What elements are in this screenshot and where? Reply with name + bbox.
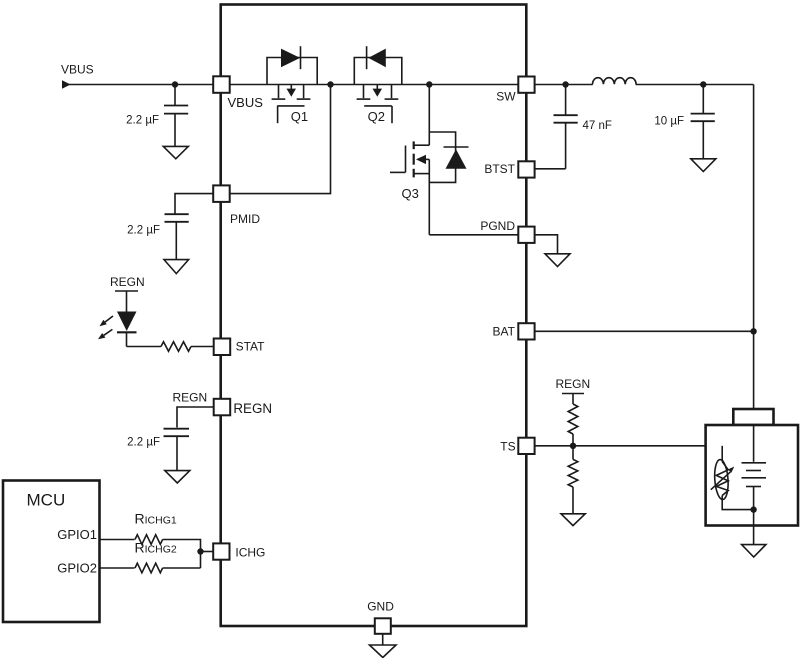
pin GND xyxy=(367,600,394,634)
svg-text:Q2: Q2 xyxy=(368,109,385,124)
wire main top rail xyxy=(230,84,519,86)
svg-text:BTST: BTST xyxy=(484,162,515,176)
ground (REGN cap) xyxy=(165,471,190,483)
wire PMID left xyxy=(175,194,213,214)
ground (C1) xyxy=(163,146,188,158)
capacitor C4 10 uF (output) xyxy=(654,85,714,159)
capacitor C1 2.2 uF (VBUS) xyxy=(126,85,188,147)
transistor Q2 xyxy=(354,46,402,124)
capacitor C3 47 nF (BTST) xyxy=(554,85,612,169)
net label VBUS xyxy=(61,63,94,77)
svg-text:PMID: PMID xyxy=(230,212,260,226)
svg-text:VBUS: VBUS xyxy=(61,63,94,77)
svg-text:2.2 µF: 2.2 µF xyxy=(126,115,159,127)
node battery negative junction xyxy=(750,506,756,512)
wire RT1 to TS node xyxy=(572,434,574,446)
pin VBUS xyxy=(213,76,263,110)
svg-text:REGN: REGN xyxy=(173,391,208,405)
pin TS xyxy=(500,438,534,454)
node VBUS/C1 junction xyxy=(172,81,178,87)
wire inductor to output xyxy=(636,84,754,86)
svg-text:TS: TS xyxy=(500,439,515,453)
MCU box xyxy=(3,481,100,623)
net label REGN (LED) xyxy=(110,275,145,291)
net label REGN (TS divider) xyxy=(556,377,591,394)
resistor RT2 (TS lower) xyxy=(568,459,578,487)
pin BAT xyxy=(493,323,535,339)
node Q1/Q2 junction xyxy=(327,81,333,87)
VBUS input arrow xyxy=(62,80,71,89)
svg-text:REGN: REGN xyxy=(110,275,145,289)
svg-text:MCU: MCU xyxy=(27,491,66,510)
svg-text:RICHG1: RICHG1 xyxy=(135,511,177,527)
net label REGN (pin) xyxy=(173,391,208,405)
net label GPIO1 xyxy=(57,527,97,542)
svg-text:2.2 µF: 2.2 µF xyxy=(127,224,160,236)
battery pack box xyxy=(706,425,798,526)
resistor RICHG2 xyxy=(135,540,177,573)
transistor Q1 xyxy=(267,46,317,124)
net label GPIO2 xyxy=(57,561,97,576)
wire resistor to STAT xyxy=(191,346,213,348)
wire RICHG1 to ICHG node xyxy=(163,540,201,569)
svg-text:REGN: REGN xyxy=(233,401,272,416)
wire TS to thermistor xyxy=(535,445,723,447)
node output junction xyxy=(700,81,706,87)
wire REGN to LED xyxy=(126,291,128,312)
pin SW xyxy=(496,77,534,104)
resistor R1 (STAT) xyxy=(161,342,191,352)
pin REGN xyxy=(214,399,272,416)
wire GND to ground xyxy=(382,634,384,645)
node SW/47nF junction xyxy=(562,81,568,87)
svg-text:Q3: Q3 xyxy=(402,186,419,201)
capacitor C5 2.2 uF (REGN) xyxy=(127,429,189,471)
ground (battery) xyxy=(742,545,766,557)
wire RICHG2 to ICHG node xyxy=(163,567,201,569)
svg-text:ICHG: ICHG xyxy=(235,545,265,559)
wire BAT to battery xyxy=(535,330,754,332)
svg-text:2.2 µF: 2.2 µF xyxy=(127,437,160,449)
wire GPIO1 to RICHG1 xyxy=(100,539,135,541)
svg-text:VBUS: VBUS xyxy=(228,95,264,110)
node Q2/SW junction xyxy=(426,81,432,87)
wire PGND to ground xyxy=(535,235,558,254)
pin ICHG xyxy=(213,543,265,559)
wire node to ICHG pin xyxy=(201,551,214,553)
ground (C2) xyxy=(164,260,189,274)
svg-text:47 nF: 47 nF xyxy=(583,120,612,132)
svg-text:REGN: REGN xyxy=(556,377,591,391)
wire output to BAT rail xyxy=(753,85,755,410)
svg-text:BAT: BAT xyxy=(493,325,516,339)
svg-text:GPIO2: GPIO2 xyxy=(57,561,97,576)
inductor L1 xyxy=(593,78,637,85)
svg-text:Q1: Q1 xyxy=(291,109,308,124)
thermistor RTH xyxy=(711,446,754,510)
wire LED to resistor xyxy=(127,346,162,348)
ground (GND pin) xyxy=(370,645,397,658)
svg-text:GPIO1: GPIO1 xyxy=(57,527,97,542)
transistor Q3 xyxy=(390,85,469,235)
wire RT2 to ground xyxy=(572,487,574,514)
node TS junction xyxy=(570,443,576,449)
wire Q3 source to PGND xyxy=(429,234,518,236)
wire SW to inductor xyxy=(535,84,593,86)
LED D1 xyxy=(98,312,137,347)
pin BTST xyxy=(484,161,534,177)
ground (10 uF) xyxy=(691,159,716,172)
battery cell BT1 xyxy=(742,425,767,545)
wire GPIO2 to RICHG2 xyxy=(100,567,135,569)
node BAT junction xyxy=(750,328,756,334)
svg-text:10 µF: 10 µF xyxy=(654,116,684,128)
wire PMID to Q1/Q2 node xyxy=(230,85,331,194)
pin STAT xyxy=(214,339,265,356)
svg-text:RICHG2: RICHG2 xyxy=(135,540,177,556)
ground (PGND) xyxy=(545,254,570,267)
node ICHG junction xyxy=(197,548,203,554)
wire 47nF to BTST xyxy=(535,168,566,170)
resistor RICHG1 xyxy=(135,511,177,545)
wire REGN pin to cap xyxy=(177,407,214,428)
wire REGN to RT1 xyxy=(572,394,574,405)
battery pack terminal xyxy=(733,409,773,425)
ground (TS divider) xyxy=(561,514,585,526)
pin PGND xyxy=(480,219,534,243)
resistor RT1 (TS upper) xyxy=(568,404,578,434)
pin PMID xyxy=(213,185,260,225)
svg-text:SW: SW xyxy=(496,90,516,104)
svg-text:PGND: PGND xyxy=(480,219,515,233)
wire VBUS input xyxy=(66,84,213,86)
capacitor C2 2.2 uF (PMID) xyxy=(127,214,189,259)
svg-text:STAT: STAT xyxy=(236,339,266,353)
svg-text:GND: GND xyxy=(367,600,394,614)
IC U1 body xyxy=(221,5,527,627)
wire TS node to RT2 xyxy=(572,446,574,460)
